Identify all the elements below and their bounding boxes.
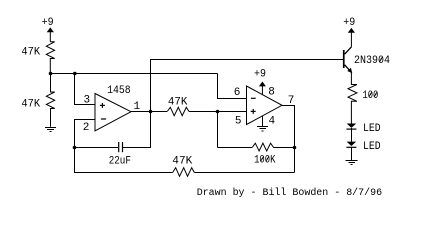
svg-text:8: 8 bbox=[268, 86, 275, 98]
svg-text:LED: LED bbox=[363, 141, 381, 153]
svg-text:100K: 100K bbox=[254, 154, 276, 166]
svg-text:47K: 47K bbox=[21, 99, 40, 111]
wire: bottom feedback run right segment bbox=[194, 172, 294, 174]
wire: divider node down to pin 6 bbox=[218, 74, 247, 99]
wire: op1 output row bbox=[131, 111, 167, 113]
wire: 100K left lead bbox=[218, 147, 253, 149]
ground symbol (left) bbox=[45, 128, 56, 132]
svg-text:+9: +9 bbox=[254, 69, 266, 81]
wire: op1 output up and over to transistor base bbox=[151, 60, 344, 112]
op-amp U1 1458 triangle bbox=[95, 94, 131, 131]
svg-text:4: 4 bbox=[269, 116, 276, 128]
ground symbol (right) bbox=[345, 161, 357, 165]
svg-text:100: 100 bbox=[362, 90, 378, 102]
op1 - input symbol bbox=[101, 118, 106, 120]
LED D1 bbox=[346, 124, 356, 130]
svg-text:+9: +9 bbox=[343, 17, 355, 29]
resistor R2 47K lower-left bbox=[46, 74, 54, 127]
svg-text:47K: 47K bbox=[168, 97, 188, 109]
wire: between LEDs bbox=[350, 128, 352, 142]
resistor R1 47K upper-left bbox=[46, 42, 54, 73]
+9 supply arrow (left) bbox=[47, 27, 54, 41]
resistor R4 100K bbox=[252, 143, 273, 151]
wire: cap left lead bbox=[75, 147, 119, 149]
svg-text:Drawn by - Bill Bowden - 8/7/9: Drawn by - Bill Bowden - 8/7/96 bbox=[197, 187, 382, 199]
svg-text:LED: LED bbox=[363, 123, 381, 135]
+9 arrow (right) bbox=[348, 28, 355, 47]
wire: op2 output to right and down bbox=[282, 105, 295, 172]
resistor R6 100 bbox=[348, 72, 357, 123]
svg-text:2N3904: 2N3904 bbox=[354, 55, 390, 67]
wire: op1 output down to capacitor bbox=[123, 112, 150, 148]
junction dot: divider midpoint bbox=[49, 72, 53, 76]
svg-text:6: 6 bbox=[234, 87, 241, 99]
transistor Q1 collector lead bbox=[345, 47, 352, 54]
wire: LED2 to ground bbox=[350, 147, 352, 160]
op2 - input symbol bbox=[251, 97, 256, 99]
wire: pin 3 input L bbox=[75, 74, 96, 105]
ground (pin 4) bbox=[257, 116, 268, 131]
capacitor C1 22uF plates bbox=[119, 142, 123, 152]
wire: pin 5 node down to 100K bbox=[217, 112, 219, 148]
svg-text:5: 5 bbox=[235, 115, 242, 127]
transistor Q1 base bar bbox=[343, 50, 345, 68]
svg-text:2: 2 bbox=[83, 122, 90, 134]
+9 arrow (pin 8) bbox=[259, 82, 266, 95]
wire: bottom feedback run left segment bbox=[75, 148, 173, 173]
op-amp U2 triangle bbox=[247, 86, 283, 125]
junction dot: op1 output bbox=[149, 110, 153, 114]
svg-text:+9: +9 bbox=[42, 17, 54, 29]
transistor Q1 emitter arrowhead bbox=[347, 68, 352, 73]
svg-text:1458: 1458 bbox=[107, 85, 131, 97]
wire: divider midpoint horizontal bbox=[50, 73, 218, 75]
LED D2 bbox=[346, 142, 356, 148]
100K slashed zero marks bbox=[261, 156, 264, 161]
svg-text:22uF: 22uF bbox=[109, 156, 131, 168]
wire: 47K to pin 5 bbox=[189, 111, 247, 113]
svg-text:47K: 47K bbox=[21, 46, 40, 58]
100 slashed zero marks bbox=[369, 92, 372, 97]
junction dot: pin 5 node bbox=[216, 110, 220, 114]
junction dot: pin2/cap/feedback node bbox=[73, 146, 77, 150]
transistor Q1 emitter lead bbox=[345, 65, 352, 73]
op2 + input symbol bbox=[251, 109, 256, 114]
junction dot: pin 3 branch bbox=[73, 72, 77, 76]
resistor R5 47K bottom feedback bbox=[173, 168, 195, 177]
op1 + input symbol bbox=[100, 103, 105, 108]
junction dot: 100K/output node bbox=[293, 146, 297, 150]
2N3904 slashed zero mark bbox=[380, 57, 383, 62]
svg-text:47K: 47K bbox=[172, 156, 192, 168]
svg-text:3: 3 bbox=[84, 94, 91, 106]
wire: 100K right lead bbox=[274, 147, 295, 149]
wire: pin 2 input L bbox=[75, 120, 96, 148]
resistor R3 47K series mid bbox=[167, 107, 189, 115]
